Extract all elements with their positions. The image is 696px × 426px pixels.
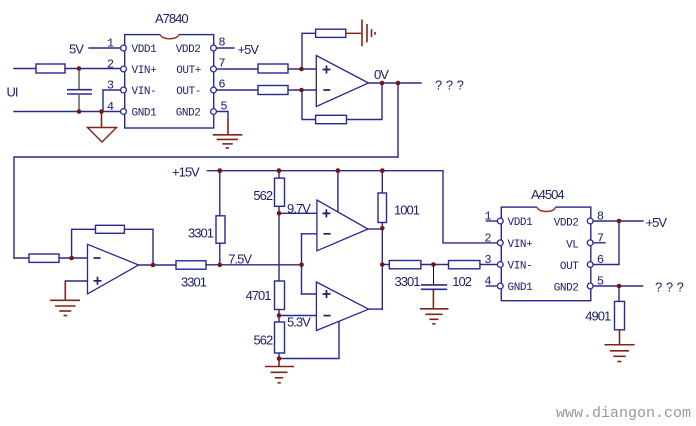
svg-text:VIN-: VIN-	[132, 86, 157, 98]
svg-text:7: 7	[218, 57, 225, 71]
svg-text:5.3V: 5.3V	[287, 315, 311, 330]
svg-text:A4504: A4504	[531, 187, 564, 202]
svg-text:VIN+: VIN+	[508, 239, 533, 251]
svg-text:7.5V: 7.5V	[228, 252, 252, 267]
svg-text:VDD2: VDD2	[176, 44, 201, 56]
svg-text:VDD1: VDD1	[508, 217, 534, 229]
svg-text:? ? ?: ? ? ?	[655, 280, 684, 295]
svg-text:102: 102	[452, 274, 471, 289]
svg-text:? ? ?: ? ? ?	[435, 78, 464, 93]
svg-text:A7840: A7840	[155, 11, 188, 26]
svg-text:OUT: OUT	[560, 261, 579, 273]
svg-text:VIN+: VIN+	[132, 65, 157, 77]
svg-text:GND2: GND2	[176, 108, 201, 120]
svg-text:VDD1: VDD1	[132, 44, 158, 56]
svg-text:562: 562	[253, 188, 272, 203]
svg-text:www.diangon.com: www.diangon.com	[556, 405, 691, 422]
svg-text:3: 3	[107, 79, 114, 93]
svg-text:6: 6	[597, 253, 604, 267]
svg-text:OUT+: OUT+	[176, 65, 201, 77]
svg-text:8: 8	[597, 210, 604, 224]
svg-text:GND2: GND2	[554, 283, 579, 295]
svg-text:VDD2: VDD2	[554, 218, 579, 230]
svg-text:3: 3	[484, 253, 491, 267]
svg-text:7: 7	[597, 231, 604, 245]
svg-text:4: 4	[107, 100, 114, 114]
svg-text:3301: 3301	[181, 275, 207, 290]
svg-text:+15V: +15V	[172, 165, 200, 180]
svg-text:4701: 4701	[246, 288, 272, 303]
svg-text:VL: VL	[566, 239, 578, 251]
svg-text:2: 2	[107, 58, 114, 72]
svg-text:4901: 4901	[585, 309, 611, 324]
svg-text:1001: 1001	[394, 203, 420, 218]
svg-text:4: 4	[484, 275, 491, 289]
svg-text:5: 5	[220, 100, 227, 114]
svg-text:5V: 5V	[69, 42, 84, 57]
svg-text:VIN-: VIN-	[508, 261, 533, 273]
svg-text:9.7V: 9.7V	[287, 201, 311, 216]
svg-text:0V: 0V	[374, 67, 389, 82]
svg-text:562: 562	[254, 333, 273, 348]
svg-text:6: 6	[218, 78, 225, 92]
svg-text:2: 2	[484, 231, 491, 245]
svg-text:UI: UI	[7, 85, 18, 100]
svg-text:+5V: +5V	[238, 42, 260, 57]
svg-text:3301: 3301	[188, 226, 214, 241]
svg-text:1: 1	[484, 210, 491, 224]
svg-text:1: 1	[107, 37, 114, 51]
svg-text:+5V: +5V	[646, 215, 668, 230]
svg-text:GND1: GND1	[508, 282, 534, 294]
svg-text:3301: 3301	[395, 274, 421, 289]
svg-text:8: 8	[218, 36, 225, 50]
svg-text:GND1: GND1	[132, 108, 158, 120]
svg-text:5: 5	[597, 275, 604, 289]
svg-text:OUT-: OUT-	[176, 86, 201, 98]
